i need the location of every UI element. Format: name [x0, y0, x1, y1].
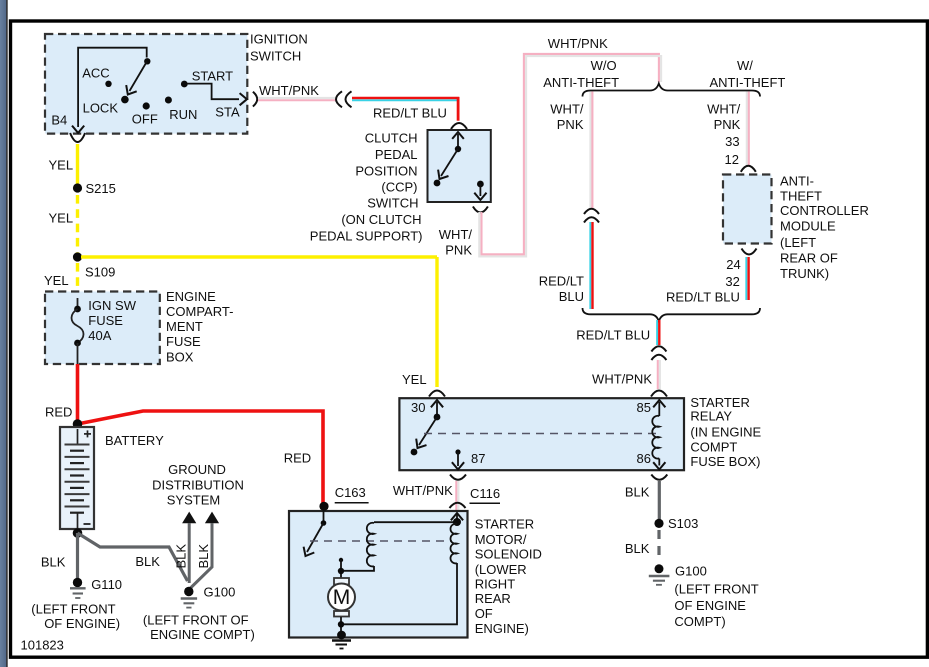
svg-text:C163: C163 — [335, 485, 366, 500]
svg-text:IGNITION: IGNITION — [250, 32, 308, 47]
svg-text:(LEFT FRONT OF: (LEFT FRONT OF — [143, 612, 249, 627]
svg-text:SWITCH: SWITCH — [367, 195, 418, 210]
svg-text:WHT/PNK: WHT/PNK — [592, 372, 652, 387]
svg-text:WHT/: WHT/ — [707, 101, 741, 116]
svg-text:WHT/PNK: WHT/PNK — [259, 83, 319, 98]
svg-text:TRUNK): TRUNK) — [780, 266, 829, 281]
svg-text:RIGHT: RIGHT — [475, 577, 516, 592]
svg-text:(LEFT FRONT: (LEFT FRONT — [31, 602, 115, 617]
svg-text:PEDAL SUPPORT): PEDAL SUPPORT) — [310, 229, 423, 244]
svg-text:STA: STA — [215, 105, 240, 120]
svg-text:ANTI-THEFT: ANTI-THEFT — [543, 75, 619, 90]
svg-text:FUSE BOX): FUSE BOX) — [690, 454, 760, 469]
svg-text:RED: RED — [284, 451, 311, 466]
svg-text:RUN: RUN — [169, 107, 197, 122]
svg-text:LOCK: LOCK — [83, 101, 119, 116]
svg-text:ANTI-THEFT: ANTI-THEFT — [710, 75, 786, 90]
svg-text:(CCP): (CCP) — [381, 180, 417, 195]
svg-text:WHT/PNK: WHT/PNK — [548, 36, 608, 51]
svg-text:COMPT: COMPT — [690, 439, 737, 454]
svg-text:W/: W/ — [737, 58, 753, 73]
svg-text:WHT/PNK: WHT/PNK — [393, 483, 453, 498]
svg-text:BATTERY: BATTERY — [105, 433, 164, 448]
svg-text:WHT/: WHT/ — [550, 102, 584, 117]
svg-text:24: 24 — [726, 257, 740, 272]
svg-text:BLK: BLK — [625, 541, 650, 556]
svg-text:OF: OF — [475, 606, 493, 621]
svg-text:ENGINE COMPT): ENGINE COMPT) — [150, 627, 255, 642]
svg-text:REAR OF: REAR OF — [780, 251, 838, 266]
svg-text:POSITION: POSITION — [355, 163, 417, 178]
svg-text:BOX: BOX — [166, 349, 194, 364]
svg-text:(LEFT: (LEFT — [780, 235, 816, 250]
svg-text:RELAY: RELAY — [690, 408, 732, 423]
svg-text:SYSTEM: SYSTEM — [167, 493, 220, 508]
svg-text:OFF: OFF — [132, 112, 158, 127]
svg-text:(IN ENGINE: (IN ENGINE — [690, 424, 761, 439]
svg-text:BLK: BLK — [625, 485, 650, 500]
svg-text:S109: S109 — [85, 265, 115, 280]
svg-text:M: M — [333, 586, 351, 609]
svg-text:85: 85 — [637, 400, 651, 415]
svg-text:YEL: YEL — [44, 273, 69, 288]
svg-text:OF ENGINE): OF ENGINE) — [44, 616, 120, 631]
svg-text:PNK: PNK — [445, 243, 472, 258]
svg-text:FUSE: FUSE — [88, 313, 123, 328]
svg-text:87: 87 — [471, 451, 485, 466]
svg-text:(ON CLUTCH: (ON CLUTCH — [341, 212, 421, 227]
svg-text:THEFT: THEFT — [780, 188, 822, 203]
svg-text:BLK: BLK — [173, 544, 188, 569]
svg-text:ACC: ACC — [82, 66, 109, 81]
svg-text:REAR: REAR — [475, 591, 511, 606]
svg-text:OF ENGINE: OF ENGINE — [674, 598, 746, 613]
svg-text:(LOWER: (LOWER — [475, 562, 527, 577]
svg-text:40A: 40A — [88, 328, 111, 343]
svg-text:STARTER: STARTER — [475, 516, 534, 531]
svg-text:S103: S103 — [668, 516, 698, 531]
svg-text:COMPT): COMPT) — [674, 614, 725, 629]
svg-text:RED/LT BLU: RED/LT BLU — [666, 289, 740, 304]
svg-text:G100: G100 — [675, 564, 707, 579]
svg-text:86: 86 — [637, 451, 651, 466]
svg-text:RED/LT BLU: RED/LT BLU — [373, 106, 447, 121]
svg-text:DISTRIBUTION: DISTRIBUTION — [152, 477, 244, 492]
svg-text:CONTROLLER: CONTROLLER — [780, 203, 869, 218]
svg-text:32: 32 — [725, 274, 739, 289]
svg-text:BLK: BLK — [135, 554, 160, 569]
svg-text:BLK: BLK — [196, 544, 211, 569]
svg-text:MENT: MENT — [166, 319, 203, 334]
svg-text:ENGINE): ENGINE) — [475, 621, 529, 636]
svg-text:RED/LT BLU: RED/LT BLU — [576, 328, 650, 343]
svg-text:B4: B4 — [51, 113, 67, 128]
svg-text:G110: G110 — [91, 577, 122, 592]
svg-text:MODULE: MODULE — [780, 218, 836, 233]
svg-text:MOTOR/: MOTOR/ — [475, 532, 527, 547]
svg-text:PNK: PNK — [557, 117, 584, 132]
svg-text:BLK: BLK — [41, 555, 66, 570]
svg-text:12: 12 — [725, 152, 739, 167]
svg-text:ANTI-: ANTI- — [780, 174, 814, 189]
svg-text:101823: 101823 — [21, 638, 64, 653]
svg-text:30: 30 — [411, 400, 425, 415]
svg-text:33: 33 — [725, 134, 739, 149]
svg-text:RED/LT: RED/LT — [539, 274, 584, 289]
svg-text:(LEFT FRONT: (LEFT FRONT — [674, 581, 758, 596]
svg-text:ENGINE: ENGINE — [166, 289, 216, 304]
svg-text:W/O: W/O — [591, 58, 617, 73]
svg-text:COMPART-: COMPART- — [166, 304, 233, 319]
svg-text:SWITCH: SWITCH — [250, 48, 301, 63]
svg-text:BLU: BLU — [559, 289, 584, 304]
svg-text:S215: S215 — [86, 181, 116, 196]
svg-text:YEL: YEL — [49, 211, 74, 226]
svg-text:G100: G100 — [204, 584, 236, 599]
svg-text:WHT/: WHT/ — [439, 227, 473, 242]
svg-text:PNK: PNK — [714, 117, 741, 132]
svg-text:START: START — [192, 68, 233, 83]
svg-text:RED: RED — [45, 405, 72, 420]
svg-text:CLUTCH: CLUTCH — [365, 131, 418, 146]
svg-text:GROUND: GROUND — [168, 462, 226, 477]
svg-text:IGN SW: IGN SW — [88, 298, 136, 313]
svg-text:C116: C116 — [470, 486, 500, 501]
svg-text:PEDAL: PEDAL — [375, 147, 418, 162]
svg-text:YEL: YEL — [49, 158, 74, 173]
svg-text:FUSE: FUSE — [166, 334, 201, 349]
svg-text:SOLENOID: SOLENOID — [475, 547, 542, 562]
svg-text:YEL: YEL — [402, 372, 427, 387]
